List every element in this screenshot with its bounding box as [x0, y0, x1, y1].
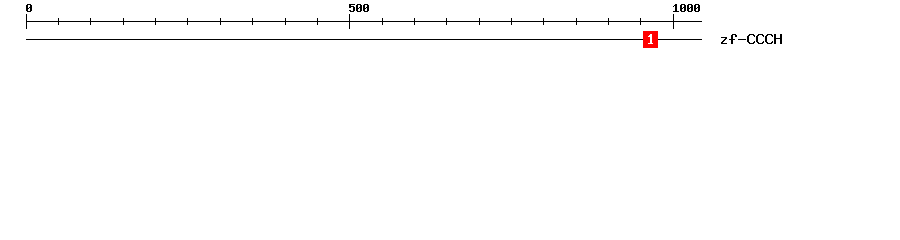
domain match number "1" (white)	[648, 34, 653, 44]
minor tick at 900 aa	[608, 18, 609, 25]
ruler label "500"	[349, 4, 369, 12]
minor tick at 950 aa	[640, 18, 641, 25]
sequence line (protein backbone)	[26, 39, 702, 40]
minor tick at 100 aa	[90, 18, 91, 25]
minor tick at 300 aa	[220, 18, 221, 25]
minor tick at 750 aa	[511, 18, 512, 25]
minor tick at 250 aa	[187, 18, 188, 25]
minor tick at 400 aa	[285, 18, 286, 25]
major tick at 500 aa	[349, 14, 350, 29]
domain name "zf-CCCH"	[721, 34, 782, 44]
minor tick at 700 aa	[479, 18, 480, 25]
ruler axis line	[26, 21, 702, 22]
ruler label "0"	[26, 4, 32, 12]
minor tick at 200 aa	[155, 18, 156, 25]
background	[0, 0, 900, 58]
minor tick at 650 aa	[446, 18, 447, 25]
ruler label "1000"	[673, 4, 700, 12]
minor tick at 800 aa	[543, 18, 544, 25]
minor tick at 350 aa	[252, 18, 253, 25]
minor tick at 600 aa	[414, 18, 415, 25]
major tick at 0 aa	[26, 14, 27, 29]
major tick at 1000 aa	[673, 14, 674, 29]
minor tick at 550 aa	[382, 18, 383, 25]
minor tick at 450 aa	[317, 18, 318, 25]
minor tick at 850 aa	[576, 18, 577, 25]
minor tick at 150 aa	[123, 18, 124, 25]
domain match box 1 (red)	[643, 31, 658, 48]
minor tick at 50 aa	[58, 18, 59, 25]
